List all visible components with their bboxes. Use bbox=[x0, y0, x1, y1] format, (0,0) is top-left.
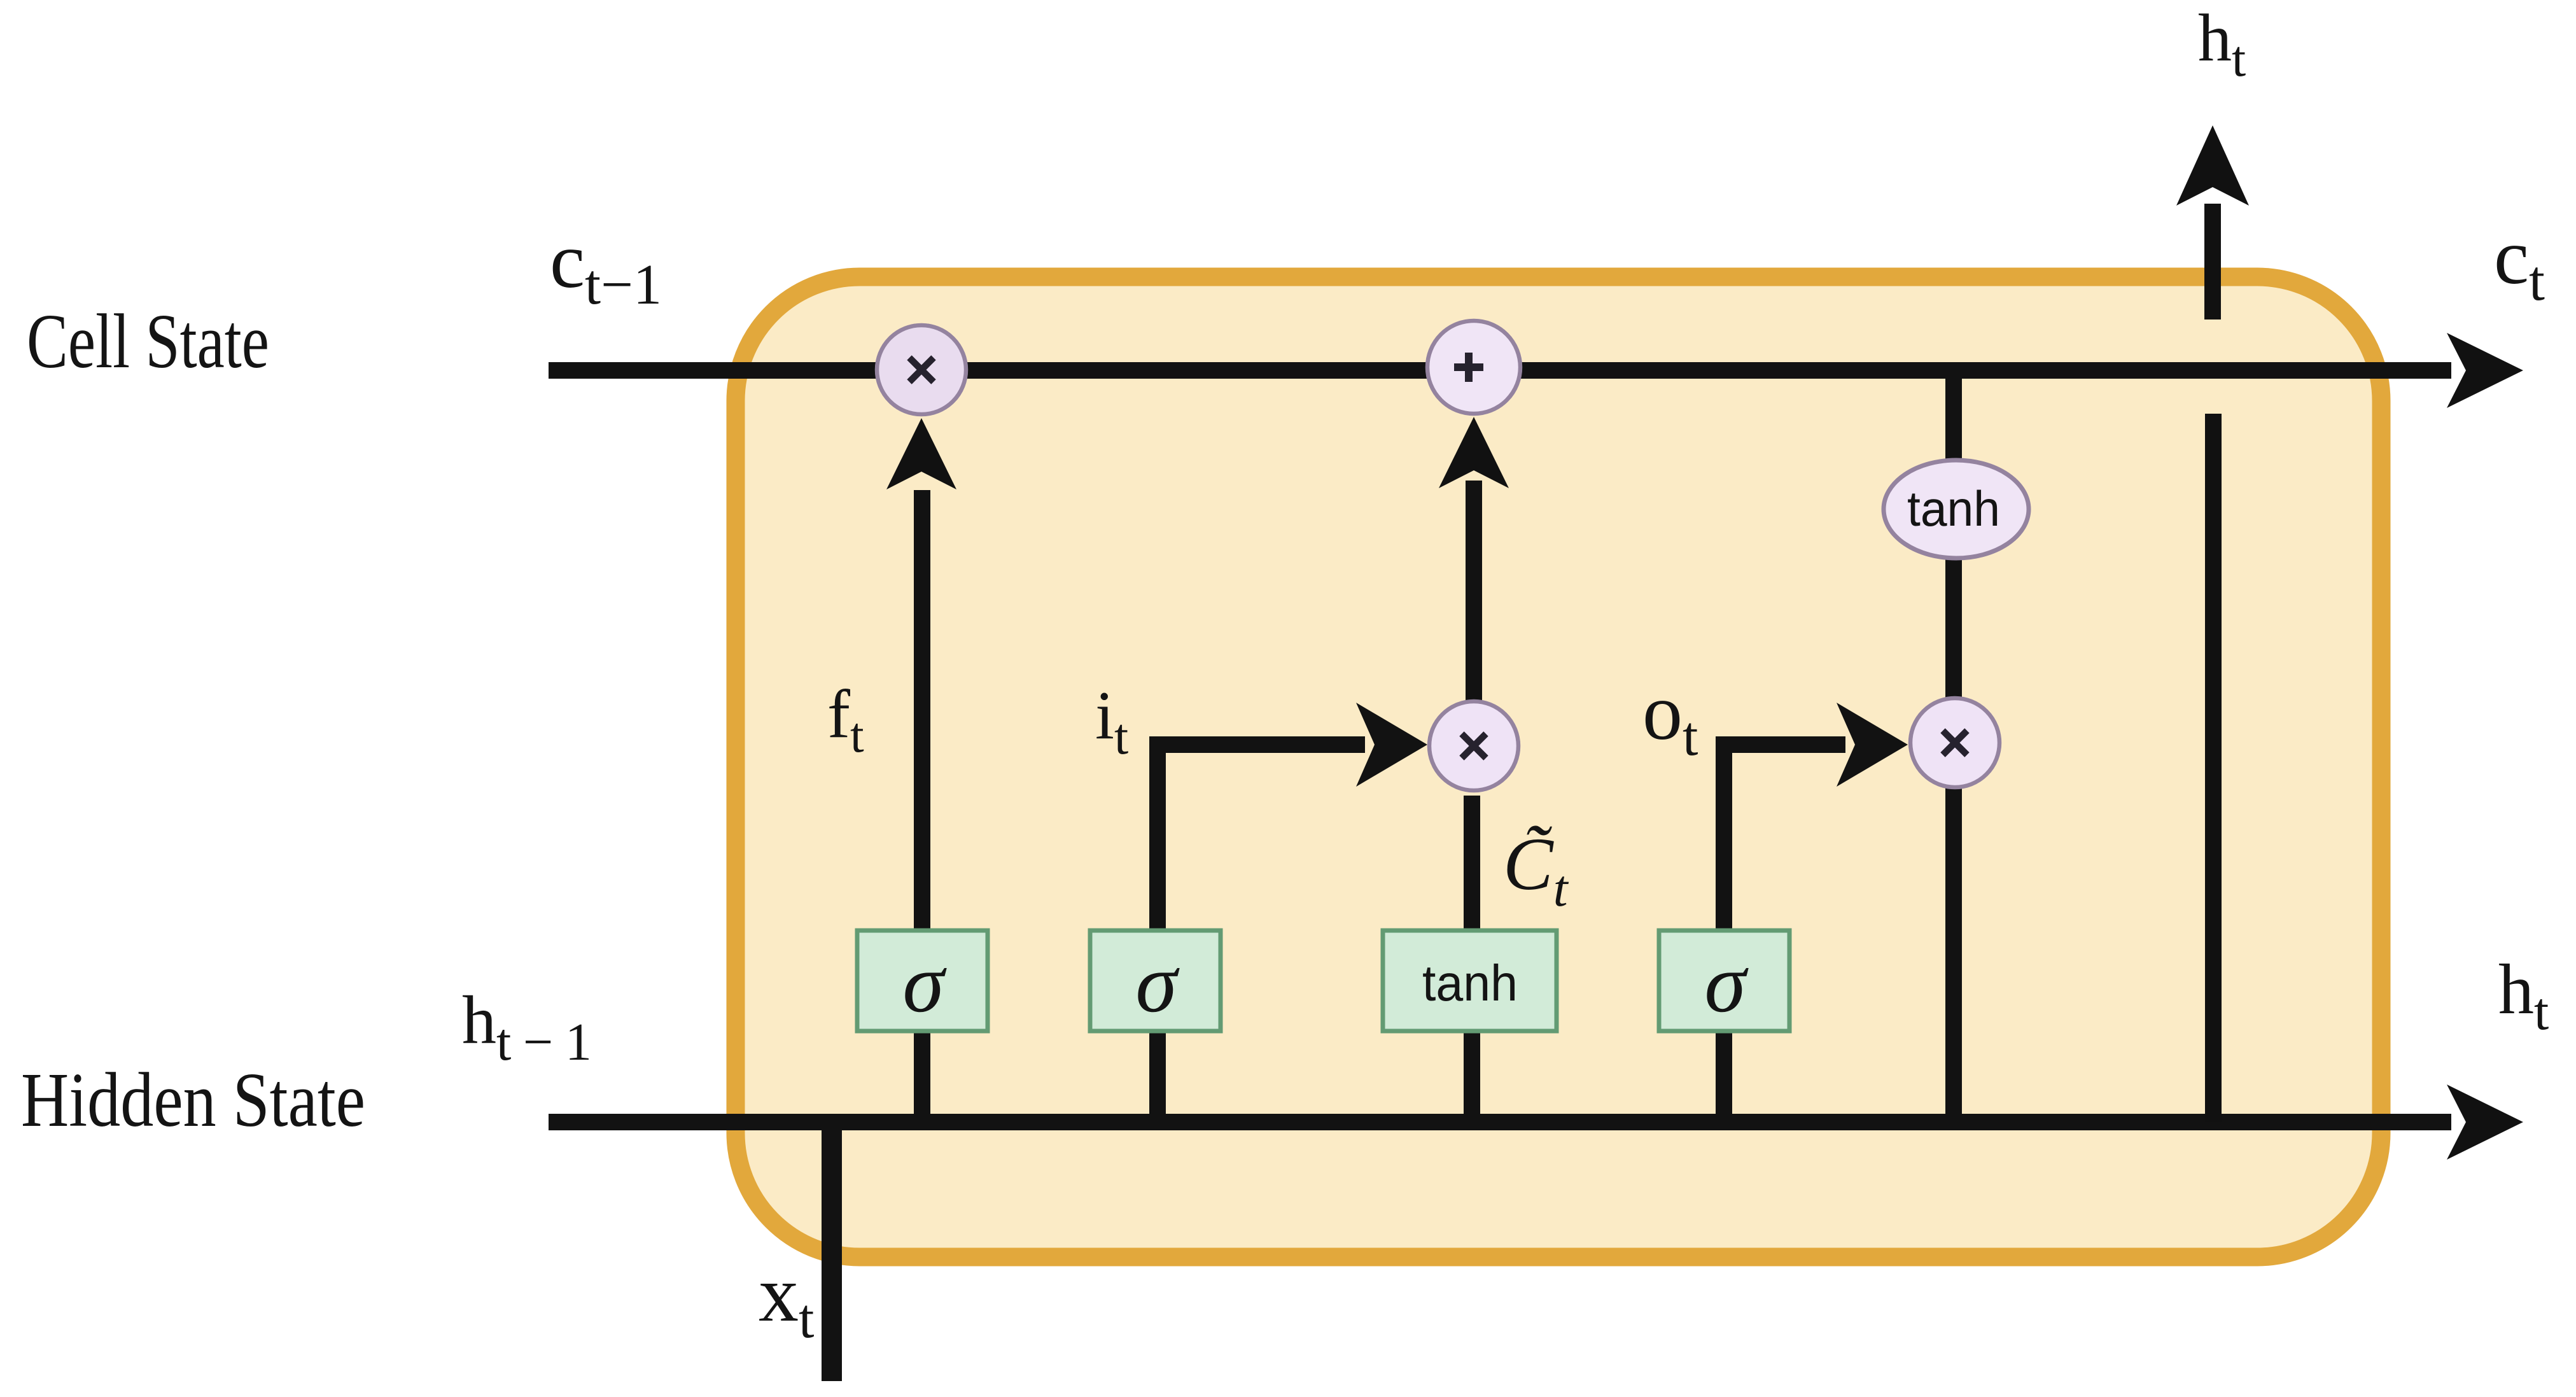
arrowhead: i_t into multiply node 2 (right) bbox=[1356, 703, 1427, 787]
multiply symbol node1 bbox=[909, 358, 934, 382]
sigma gate box 3 (output) bbox=[1659, 930, 1789, 1031]
add node (on cell state line) bbox=[1427, 321, 1520, 414]
tanh gate box (candidate) bbox=[1383, 930, 1557, 1031]
add symbol bbox=[1454, 353, 1483, 382]
tanh ellipse node bbox=[1884, 460, 2029, 558]
arrowhead: into add node (up) bbox=[1439, 417, 1509, 488]
arrowhead: o_t into multiply node 3 (right) bbox=[1837, 703, 1908, 787]
wire: cell-state tap down through tanh ellipse and multiply to hidden line bbox=[1945, 370, 1962, 1122]
wire: forget-gate vertical (sigma1 up to multiply node) bbox=[914, 490, 930, 1122]
multiply symbol node2 bbox=[1462, 734, 1486, 758]
arrowhead: into multiply node 1 (up) bbox=[886, 418, 956, 489]
wire: cell state horizontal line bbox=[549, 362, 2451, 379]
multiply node 1 (forget gate, on cell state line) bbox=[877, 325, 966, 414]
sigma gate box 1 (forget) bbox=[857, 930, 988, 1031]
multiply node 2 (input x candidate) bbox=[1429, 701, 1518, 790]
svg-text:Cell State: Cell State bbox=[27, 298, 269, 384]
wire: hidden state up to h_t output (lower segment, crossing gap) bbox=[2205, 414, 2222, 1122]
wire: input-gate vertical + horizontal into multiply node (i_t) bbox=[1158, 745, 1365, 1122]
arrowhead: hidden state output h_t (right) bbox=[2447, 1085, 2523, 1160]
svg-text:σ: σ bbox=[902, 936, 947, 1030]
LSTM cell body (rounded rectangle) bbox=[736, 277, 2381, 1257]
svg-text:tanh: tanh bbox=[1907, 481, 2000, 537]
arrowhead: h_t output top (up) bbox=[2176, 125, 2249, 206]
svg-text:σ: σ bbox=[1704, 936, 1749, 1030]
multiply node 3 (output gate) bbox=[1910, 698, 1999, 787]
svg-text:Hidden State: Hidden State bbox=[21, 1057, 365, 1143]
wire: x_t input vertical bbox=[822, 1114, 842, 1381]
wire: multiply node up to add node bbox=[1466, 481, 1482, 700]
arrowhead: cell state output c_t (right) bbox=[2447, 333, 2523, 408]
wire: candidate tanh box up to multiply node bbox=[1464, 796, 1480, 1122]
sigma gate box 2 (input) bbox=[1090, 930, 1221, 1031]
svg-text:σ: σ bbox=[1135, 936, 1180, 1030]
wire: h_t output shaft above cell state line bbox=[2204, 204, 2221, 319]
wire: hidden state horizontal line bbox=[549, 1114, 2451, 1130]
multiply symbol node3 bbox=[1943, 731, 1967, 755]
svg-text:tanh: tanh bbox=[1422, 955, 1518, 1011]
wire: output-gate vertical + horizontal into multiply node (o_t) bbox=[1724, 745, 1845, 1122]
